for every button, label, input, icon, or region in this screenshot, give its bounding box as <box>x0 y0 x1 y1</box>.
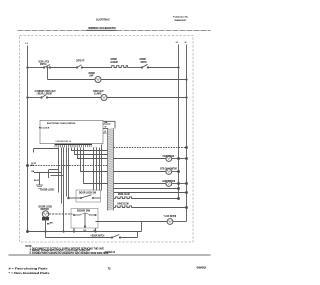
wire board right stub 2 <box>103 128 109 130</box>
svg-text:2 LAMPS: 2 LAMPS <box>94 92 102 96</box>
wire branch y188.5 <box>114 188 179 190</box>
node junction branch on rung 1 <box>47 67 48 68</box>
wire box2 pins down <box>73 228 75 232</box>
svg-text:* LOCK MOTOR: * LOCK MOTOR <box>164 214 177 218</box>
wire harness bundle verticals <box>58 148 60 193</box>
wire rung 2 <box>28 97 42 99</box>
svg-text:BK W: BK W <box>34 180 39 182</box>
wire left branch y175.5 <box>51 175 64 177</box>
svg-text:SWITCH: SWITCH <box>141 60 147 64</box>
wire board edge drop <box>101 145 103 191</box>
wire rung 1 lamp branch <box>47 68 49 80</box>
svg-text:5995421537: 5995421537 <box>175 19 187 22</box>
wire board top-right corner link <box>103 121 115 128</box>
svg-text:P12 CLOCK: P12 CLOCK <box>39 127 50 129</box>
header rule <box>18 29 87 31</box>
ground chassis symbol <box>39 173 41 186</box>
svg-text:69/02: 69/02 <box>197 266 207 270</box>
wire left dashed branch from L1 rail <box>28 165 108 167</box>
motor cam block <box>42 217 49 220</box>
switch door switch box2 <box>71 209 98 229</box>
svg-text:WIRING SCHEMATIC: WIRING SCHEMATIC <box>88 26 117 30</box>
wire dashed branch to N rail <box>114 147 187 149</box>
wire riser to lock circuit <box>141 222 143 232</box>
connector P1 comb on board bottom <box>55 143 93 145</box>
svg-text:L1: L1 <box>26 43 29 45</box>
schematic frame <box>20 35 194 242</box>
svg-text:BROIL ELEM: BROIL ELEM <box>118 192 130 196</box>
svg-text:W: W <box>105 127 107 129</box>
wire bottom bus A <box>28 231 142 233</box>
svg-text:LAMP: LAMP <box>89 74 93 78</box>
wire motor down <box>45 217 47 231</box>
wire left branch y169.5 <box>49 169 59 171</box>
wire branch y192.5 <box>114 192 187 194</box>
svg-text:1 2 3 4 5 6 7 8 9 0 1 2: 1 2 3 4 5 6 7 8 9 0 1 2 <box>56 140 71 143</box>
wire right rail N <box>186 45 188 222</box>
svg-text:L1: L1 <box>176 42 179 44</box>
svg-text:NOTE:: NOTE: <box>26 244 33 248</box>
footer rule <box>9 254 211 256</box>
svg-text:DOOR LOCK SW: DOOR LOCK SW <box>79 191 96 195</box>
svg-text:N: N <box>185 42 187 44</box>
svg-text:DOOR SW: DOOR SW <box>77 209 90 213</box>
connector harness strip (hatched) <box>108 129 114 211</box>
svg-text:DOOR LOCK: DOOR LOCK <box>41 190 55 192</box>
wire left branch y172 <box>34 172 62 174</box>
wire box1 to bundle <box>69 197 77 199</box>
svg-text:2142994-A0: 2142994-A0 <box>105 250 116 254</box>
svg-text:1 REAR, 1 FRONT: 1 REAR, 1 FRONT <box>37 92 53 96</box>
svg-text:370°F: 370°F <box>76 59 85 63</box>
op electronic oven control board U1 <box>40 120 103 143</box>
svg-text:ELEMENT: ELEMENT <box>111 60 119 64</box>
svg-text:# = Fast-closing Parts: # = Fast-closing Parts <box>9 267 49 271</box>
svg-text:GLGF376AS: GLGF376AS <box>96 18 110 22</box>
svg-text:BK: BK <box>50 223 53 225</box>
svg-text:72: 72 <box>108 267 112 271</box>
switch door lock switch box <box>76 190 101 202</box>
svg-text:* = Non-Insulated Parts: * = Non-Insulated Parts <box>9 271 51 275</box>
svg-text:Publication No.: Publication No. <box>173 16 189 19</box>
wire rung 1 <box>28 67 44 69</box>
wire motor to box2 <box>49 213 73 215</box>
wire riser bottom left <box>45 232 47 238</box>
wire board right stub 3 <box>103 132 107 134</box>
wire riser bottom right <box>137 232 139 238</box>
wire left rail L1 <box>27 46 29 232</box>
wire right rail L1 <box>178 45 180 199</box>
svg-text:ELECTRONIC OVEN CONTROL: ELECTRONIC OVEN CONTROL <box>47 123 76 125</box>
wire board right stub 1 <box>103 123 111 125</box>
wire left branch y148 <box>34 148 59 150</box>
svg-text:BAKE ELEM: BAKE ELEM <box>118 202 129 206</box>
svg-text:SWITCH: SWITCH <box>40 62 46 66</box>
wire harness staircase corners to right <box>72 148 108 151</box>
